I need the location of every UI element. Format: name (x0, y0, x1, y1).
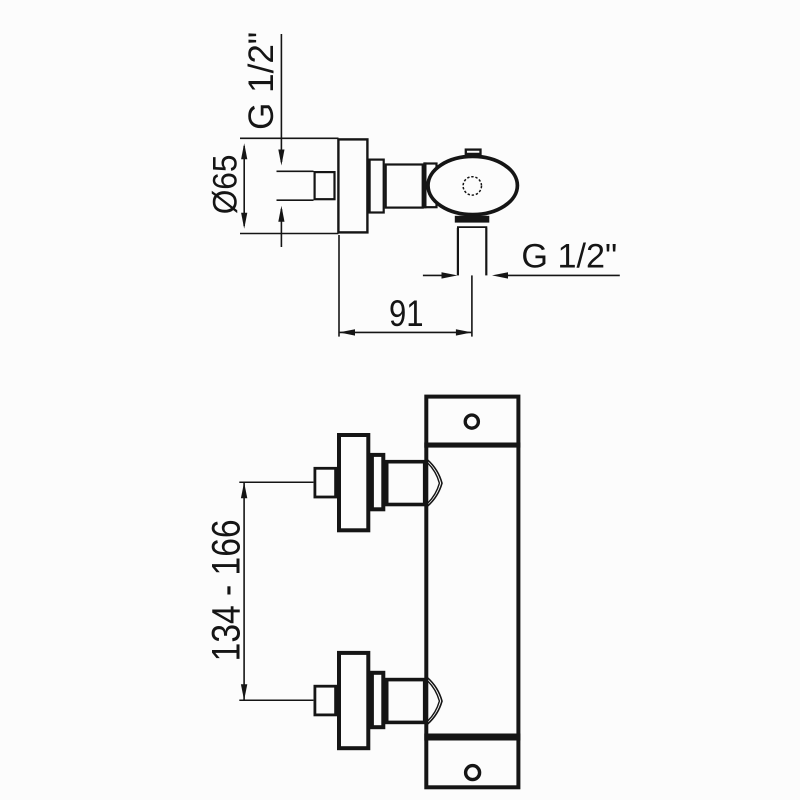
svg-text:134 - 166: 134 - 166 (204, 519, 248, 661)
svg-text:G 1/2": G 1/2" (242, 32, 281, 130)
svg-text:91: 91 (389, 294, 424, 335)
svg-text:Ø65: Ø65 (205, 155, 243, 215)
svg-text:G 1/2": G 1/2" (521, 238, 617, 276)
